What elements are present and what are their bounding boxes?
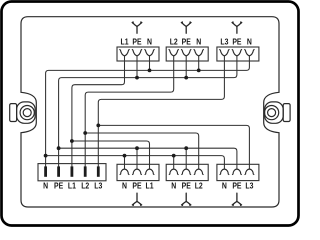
plug symbol top 1 — [132, 22, 142, 33]
svg-text:L1: L1 — [68, 181, 77, 191]
wire L2 bottom run — [85, 133, 199, 169]
wire PE drop bottom block2 — [185, 148, 187, 169]
junction N top block1 — [148, 69, 152, 73]
contact bottom block2 N — [169, 169, 178, 175]
contact top block3 L3 — [220, 50, 229, 56]
wire N feed vertical + top bus — [46, 56, 250, 167]
svg-text:N: N — [147, 37, 152, 47]
contact top block2 PE — [182, 50, 191, 56]
svg-text:PE: PE — [54, 181, 63, 191]
wire L2 feed + top run — [85, 56, 174, 167]
junction L3 feed — [96, 124, 100, 128]
socket block bottom 3 (N PE L3) — [217, 164, 259, 180]
junction L2 feed — [83, 131, 87, 135]
contact bottom block2 L2 — [194, 169, 203, 175]
junction PE top block2 — [184, 76, 188, 80]
contact bottom block1 PE — [133, 169, 142, 175]
svg-text:PE: PE — [232, 37, 241, 47]
contact top block1 L1 — [120, 50, 129, 56]
contact top block1 PE — [132, 50, 141, 56]
contact bottom block1 L1 — [145, 169, 154, 175]
contact top block2 L2 — [169, 50, 178, 56]
wire PE feed vertical + top bus — [59, 56, 237, 167]
svg-text:N: N — [122, 181, 127, 191]
wire L1 bottom run — [72, 141, 150, 169]
wire N drop top block1 — [149, 56, 151, 71]
wire PE drop bottom block1 — [136, 148, 138, 169]
plug symbol bottom 2 — [182, 193, 191, 205]
plug symbol bottom 1 — [132, 193, 141, 205]
svg-text:N: N — [196, 37, 201, 47]
svg-text:N: N — [171, 181, 176, 191]
wire N drop bottom block2 — [173, 156, 175, 169]
wire N bottom bus — [46, 156, 225, 169]
svg-text:PE: PE — [232, 181, 241, 191]
junction N bottom block1 — [123, 154, 127, 158]
mounting lug left — [10, 102, 36, 123]
junction PE bottom block1 — [135, 146, 139, 150]
svg-text:PE: PE — [132, 37, 141, 47]
wire L3 bottom run — [98, 125, 249, 169]
junction N top block2 — [197, 69, 201, 73]
mounting lug right — [265, 102, 291, 123]
svg-text:N: N — [43, 181, 48, 191]
junction PE bottom block2 — [184, 146, 188, 150]
contact top block3 N — [245, 50, 254, 56]
contact bottom block3 L3 — [245, 169, 254, 175]
contact bottom block3 PE — [232, 169, 241, 175]
contact bottom block3 N — [220, 169, 229, 175]
svg-text:L1: L1 — [145, 181, 154, 191]
svg-text:L1: L1 — [120, 37, 129, 47]
svg-text:PE: PE — [182, 181, 191, 191]
svg-text:PE: PE — [182, 37, 191, 47]
input pins N PE L1 L2 L3 — [44, 166, 100, 176]
socket block top 3 (L3 PE N) — [217, 47, 259, 61]
enclosure outline — [21, 17, 279, 207]
contact bottom block1 N — [120, 169, 129, 175]
wire N drop bottom block1 — [124, 156, 126, 169]
wire N drop top block2 — [198, 56, 200, 71]
plug symbol top 3 — [232, 22, 242, 33]
wire PE drop top block1 — [136, 56, 138, 78]
svg-text:L3: L3 — [245, 181, 253, 191]
junction L1 feed — [70, 139, 74, 143]
junction N bottom block2 — [172, 154, 176, 158]
svg-text:L3: L3 — [94, 181, 102, 191]
contact bottom block2 PE — [182, 169, 191, 175]
svg-text:PE: PE — [132, 181, 141, 191]
input connector (N PE L1 L2 L3) — [38, 164, 106, 181]
plug symbol bottom 3 — [232, 193, 241, 205]
contact top block2 N — [194, 50, 203, 56]
wire L3 feed + top run — [98, 56, 224, 167]
svg-text:N: N — [247, 37, 252, 47]
svg-text:L3: L3 — [220, 37, 228, 47]
svg-text:L2: L2 — [81, 181, 89, 191]
junction PE top block1 — [135, 76, 139, 80]
wire PE bottom bus — [59, 148, 237, 169]
svg-text:L2: L2 — [195, 181, 203, 191]
wire PE drop top block2 — [185, 56, 187, 78]
svg-text:N: N — [222, 181, 227, 191]
socket block top 2 (L2 PE N) — [166, 47, 208, 61]
socket block top 1 (L1 PE N) — [117, 47, 159, 61]
wire L1 feed + top run — [72, 56, 125, 167]
contact top block1 N — [145, 50, 154, 56]
contact top block3 PE — [232, 50, 241, 56]
socket block bottom 2 (N PE L2) — [166, 164, 208, 180]
socket block bottom 1 (N PE L1) — [117, 164, 159, 180]
junction PE feed — [57, 146, 61, 150]
plug symbol top 2 — [181, 22, 191, 33]
junction N feed — [44, 154, 48, 158]
svg-text:L2: L2 — [170, 37, 178, 47]
